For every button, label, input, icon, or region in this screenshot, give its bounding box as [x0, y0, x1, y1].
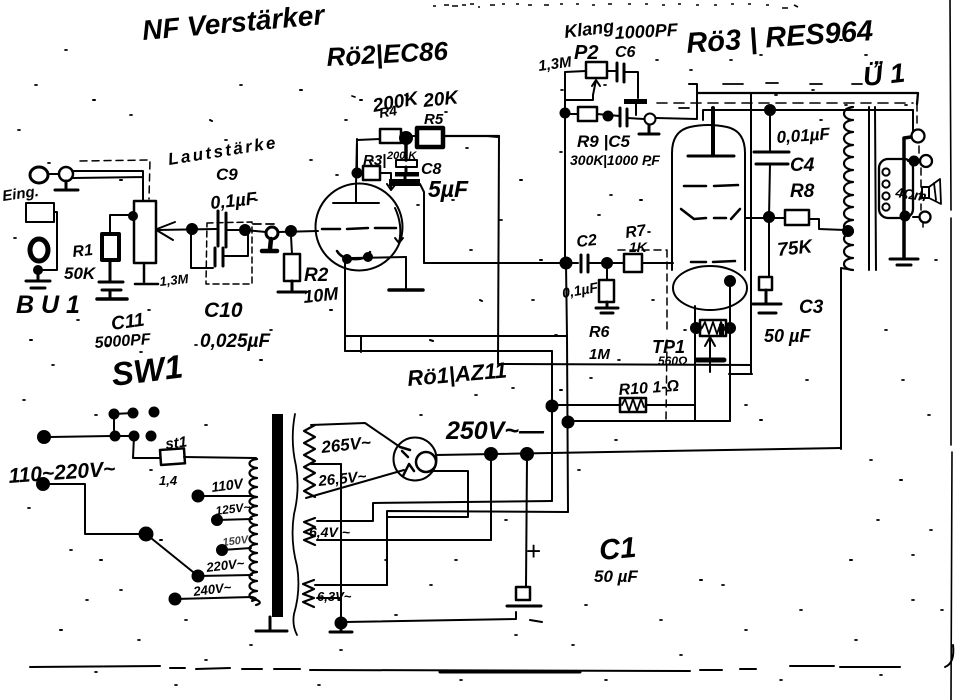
wire switch to fuse — [133, 436, 160, 458]
center tap ground drop — [340, 464, 342, 622]
speaker coil loops — [882, 168, 889, 175]
EC86 heater lead right — [360, 336, 362, 352]
scan noise top edge dashes — [433, 4, 798, 8]
svg-text:+: + — [526, 536, 541, 566]
ground below center tap — [330, 627, 352, 632]
pot wiper arrow — [157, 222, 175, 240]
TP1 right end fill — [719, 324, 724, 335]
selector common node — [140, 528, 153, 541]
transformer core squiggle line — [293, 414, 299, 635]
scan bottom page edge thick part — [440, 671, 580, 674]
ground at jack2 — [55, 181, 78, 190]
node transformer tap — [843, 226, 853, 236]
wire C5 to grid cap circle — [627, 118, 644, 119]
wire C4 down to R8 node — [769, 164, 770, 217]
TP1 wiper bar — [697, 358, 724, 363]
potentiometer P2 — [586, 62, 607, 78]
input jack circle 3 — [30, 239, 48, 261]
wire R8 to transformer tap — [809, 219, 845, 230]
capacitor C3 body box — [759, 277, 772, 290]
wire TP1 left down — [694, 306, 696, 421]
svg-text:50K: 50K — [64, 264, 97, 283]
node at R2 top — [286, 226, 296, 236]
wire heater line lower to transformer — [387, 511, 568, 585]
wire from 250V node down to heater line — [490, 452, 492, 540]
ground rail from transformer to C1 — [345, 612, 542, 622]
capacitor C11 — [99, 260, 123, 298]
R10 zigzag — [622, 399, 644, 411]
node screen on top line — [765, 105, 775, 115]
wire heater drop left — [551, 351, 553, 501]
svg-text:6,3V~: 6,3V~ — [317, 589, 352, 604]
wire speaker top terminal — [908, 160, 920, 162]
ground below C11 — [97, 297, 127, 301]
HV winding bottom tap diagonal — [306, 470, 404, 498]
scan noise speckles — [30, 40, 902, 630]
resistor R9 — [578, 107, 597, 121]
wire cathode to right — [352, 257, 406, 258]
svg-text:0,025µF: 0,025µF — [200, 331, 271, 352]
wire top cap line across to transformer — [703, 110, 913, 120]
input jack circle 2 — [59, 167, 73, 181]
switch SW1 contact dots — [110, 410, 119, 419]
svg-text:50 µF: 50 µF — [594, 567, 638, 586]
svg-text:R4: R4 — [378, 102, 399, 121]
tap node 240V — [170, 594, 181, 605]
ground below R6 — [596, 302, 618, 313]
wire heater line upper to transformer — [317, 501, 552, 521]
svg-text:560Ω: 560Ω — [658, 354, 688, 368]
AZ11 filament circle — [416, 452, 436, 472]
dashed segment above grid cap — [253, 223, 274, 225]
svg-text:0,01µF: 0,01µF — [776, 124, 831, 147]
wire top to P2 — [565, 71, 586, 72]
svg-text:50 µF: 50 µF — [764, 326, 811, 346]
wire 6,3V bottom tap to ground rail — [317, 597, 341, 599]
ground below speaker — [890, 259, 918, 265]
wire 150V tap — [222, 548, 251, 550]
svg-text:|1000 PF: |1000 PF — [603, 152, 660, 168]
wire R7 to RES964 grid — [642, 262, 673, 264]
resistor R7 — [624, 254, 642, 272]
wire pair jack2 to volume pot top — [72, 171, 143, 201]
grid cap connector circle RES964 — [645, 114, 656, 125]
wire bar down to C5 node — [635, 104, 637, 115]
wire bridge cathode line to B+ riser — [729, 373, 752, 375]
wire screen down to C4 — [769, 115, 771, 152]
tube RES964 envelope — [672, 125, 745, 270]
switch SW1 spare dots — [150, 408, 159, 417]
wire grid cap to EC86 grid — [278, 231, 318, 232]
wire C6 right and down — [624, 72, 638, 98]
svg-text:1,4: 1,4 — [159, 473, 178, 488]
svg-text:1M: 1M — [589, 346, 610, 363]
AZ11 anode marks — [400, 447, 414, 476]
wire R1 top to pot — [110, 215, 133, 234]
node TP1 left — [691, 323, 701, 333]
node between R9 and C5 — [604, 112, 613, 121]
wire wiper to C9 — [157, 229, 216, 230]
wire jack1 to jack2 — [48, 173, 59, 175]
ground below R2 — [278, 281, 306, 292]
wire R10 line — [552, 404, 695, 406]
wire C2 to R7 — [588, 262, 624, 264]
resistor R8 — [785, 210, 809, 225]
EC86 anode — [333, 185, 379, 203]
speaker coil body — [879, 159, 913, 218]
tap node 110V — [193, 491, 204, 502]
svg-text:75K: 75K — [776, 236, 814, 261]
RES964 top electrode dashes — [684, 185, 738, 186]
svg-text:C10: C10 — [204, 299, 243, 322]
capacitor C8 thick bottom plate — [389, 179, 420, 186]
resistor R5 — [417, 128, 443, 147]
wire R6 top — [606, 266, 608, 280]
output transformer Ü1 primary winding — [844, 107, 853, 270]
svg-text:Rö2|EC86: Rö2|EC86 — [326, 36, 449, 72]
dashed vertical at right margin — [917, 104, 923, 227]
wire 6,4V bottom tap line — [317, 539, 491, 541]
top rail to speaker jack — [697, 93, 918, 104]
mains terminal bottom — [37, 478, 49, 490]
capacitor C8 middle plate — [395, 172, 419, 177]
resistor R6 — [599, 280, 614, 302]
wire grid circle up to top rail — [656, 84, 697, 119]
svg-text:1000PF: 1000PF — [614, 20, 679, 43]
C6 junction thick bar — [624, 99, 647, 104]
wire winding top to top line — [846, 107, 853, 109]
output transformer core lines — [869, 107, 876, 270]
capacitor C9 — [218, 211, 226, 247]
svg-text:C1: C1 — [598, 532, 638, 567]
scan bottom page edge line — [30, 666, 900, 671]
speaker icon cone — [929, 179, 941, 204]
fuse st1 body — [160, 448, 185, 465]
capacitor C6 plates — [617, 63, 624, 82]
potentiometer (volume) body — [134, 201, 156, 263]
svg-text:C9: C9 — [216, 165, 238, 184]
RES964 grid2 dashes — [691, 261, 735, 262]
wire speaker bottom terminal — [913, 216, 919, 218]
node 250V a — [485, 448, 497, 460]
wire anode node to R3 — [357, 144, 363, 173]
wire cathode down to ground — [405, 257, 407, 288]
svg-text:R5: R5 — [424, 111, 444, 128]
ground below jack3 — [26, 270, 50, 288]
resistor R4 — [380, 129, 401, 143]
resistor R3 — [363, 166, 380, 180]
transformer primary winding loops — [250, 459, 260, 605]
wire R4 to R5 — [401, 135, 417, 137]
wire 6,3V top tap line — [315, 584, 387, 586]
wire mains bottom to selector — [49, 484, 146, 534]
wire AZ11 filament loop — [387, 471, 468, 517]
wire RES964 grid1 out to R8 node — [745, 217, 785, 219]
scan bottom right corner hook — [945, 645, 953, 667]
svg-text:250V~—: 250V~— — [445, 417, 545, 445]
wire fuse to primary top — [184, 457, 256, 458]
capacitor C10 plates — [215, 248, 223, 266]
wire into C10 — [191, 234, 213, 268]
capacitor C8 top plate box — [396, 160, 417, 167]
node on heater drop at R10 — [547, 401, 558, 412]
wire R2 top — [291, 236, 292, 254]
P2 wiper arrow — [592, 80, 600, 95]
HV center tap wire — [311, 463, 341, 465]
svg-text:P2: P2 — [574, 42, 598, 64]
wire Klang feed vertical — [565, 72, 567, 337]
wire winding bottom to B+ drop — [841, 268, 853, 449]
potentiometer TP1 body — [700, 320, 726, 336]
capacitor C10 dashed selection box — [206, 222, 252, 284]
node between R4 and R5 — [400, 132, 412, 144]
EC86 grid dashes — [322, 228, 396, 229]
svg-text:R1: R1 — [72, 242, 94, 261]
wire R9 left — [565, 113, 578, 115]
grid cap ground stub — [639, 125, 659, 134]
EC86 cathode curve — [337, 251, 370, 259]
svg-text:10M: 10M — [302, 283, 340, 307]
wire 240V tap — [175, 597, 256, 601]
mains terminal top — [38, 431, 50, 443]
ground below core — [256, 617, 287, 631]
scan border right edge — [950, 0, 952, 700]
wire BU1 box down to jack3 — [40, 212, 57, 270]
transformer secondary 6,4V winding zigzag — [304, 518, 315, 545]
wire heater line upper — [345, 335, 567, 337]
svg-text:B U 1: B U 1 — [16, 291, 80, 319]
capacitor C4 plates — [754, 152, 789, 164]
grid cap ground stub — [262, 239, 277, 251]
node on coupling line — [561, 258, 572, 269]
node 250V b — [521, 448, 533, 460]
wire P2 wiper to left rail — [566, 95, 593, 100]
RES964 anode plate bar — [688, 155, 734, 158]
connector box BU1 — [26, 203, 54, 222]
wire anode node to R4 — [357, 139, 380, 140]
tube EC86 envelope — [316, 184, 403, 271]
wire 125V tap — [217, 519, 252, 520]
tap node 220V — [193, 571, 204, 582]
resistor R2 — [284, 254, 300, 281]
capacitor C2 plates — [581, 255, 588, 272]
wire C1 drop — [526, 458, 527, 587]
node speaker top — [910, 157, 919, 166]
svg-text:1,3M: 1,3M — [159, 271, 190, 289]
wire R3 to C8 and down to tube — [380, 173, 395, 190]
resistor R1 — [102, 234, 119, 260]
svg-text:1K: 1K — [629, 239, 648, 255]
node center tap ground — [336, 618, 347, 629]
svg-text:R9 |C5: R9 |C5 — [577, 132, 630, 151]
svg-text:C3: C3 — [799, 297, 824, 318]
capacitor C5 plates — [620, 108, 627, 126]
wire out of C10 — [223, 232, 248, 256]
transformer core black bar — [272, 414, 283, 617]
wire heater drop right — [567, 337, 568, 512]
resistor R10 body — [620, 398, 646, 412]
speaker icon box — [922, 187, 929, 198]
svg-text:C2: C2 — [576, 232, 598, 251]
transformer secondary 6,3V winding zigzag — [303, 580, 314, 607]
svg-text:Ü 1: Ü 1 — [861, 58, 906, 92]
wire 250V rail — [436, 448, 841, 455]
node Klang at R9 — [561, 109, 570, 118]
tube RES964 bottom bulb — [673, 266, 747, 310]
wire heater line lower — [345, 350, 552, 352]
EC86 inner right electrode curve — [395, 208, 403, 243]
svg-text:20K: 20K — [421, 87, 460, 112]
capacitor C3 plates polarized — [753, 290, 781, 313]
capacitor C8 stem — [405, 167, 406, 179]
svg-text:R6: R6 — [589, 324, 610, 341]
tap node 150V — [217, 545, 227, 555]
tube AZ11 envelope — [394, 438, 437, 481]
wire 220V tap — [198, 575, 252, 576]
wire C9 to grid cap — [226, 230, 266, 232]
node after C2 — [602, 258, 612, 268]
svg-text:R8: R8 — [790, 181, 815, 202]
wire C8 down to coupling line — [420, 184, 424, 263]
wire TP1 return line — [568, 420, 730, 422]
speaker terminal circle bottom — [920, 212, 931, 223]
tap node 125V — [212, 515, 222, 525]
speaker jack circle top — [912, 130, 925, 143]
wire TP1 cathode drop — [729, 286, 731, 421]
node before C9 — [187, 224, 197, 234]
RES964 anode top cap lead — [711, 108, 715, 154]
wire R9 to C5 — [597, 114, 620, 116]
wire TP1 bar stem — [709, 363, 711, 372]
pot bottom wire and ground — [135, 263, 158, 284]
shield dashed line above input wires — [80, 160, 150, 199]
input jack circle 1 — [30, 167, 48, 183]
node TP1 right — [725, 323, 735, 333]
wire mains top to switch — [50, 436, 111, 437]
capacitor C1 plus box — [516, 587, 530, 600]
wire node down to C3 — [768, 222, 770, 277]
node junction at jack3 — [34, 266, 42, 274]
wire P2 to C6 — [607, 70, 617, 72]
dash-dot marks above top rail — [679, 83, 862, 108]
ground bar below C1 — [507, 605, 541, 608]
RES964 cathode node — [725, 276, 735, 286]
node after C9 — [240, 225, 250, 235]
node at cathode — [343, 255, 351, 263]
node at pot left — [129, 212, 137, 220]
EC86 heater lead left — [344, 262, 346, 351]
dashed line from R7 top — [618, 250, 667, 420]
node at R8 — [764, 212, 774, 222]
node cathode right — [364, 253, 372, 261]
selector arm to 220V tap — [146, 534, 198, 576]
wire jack stub to main drop — [904, 137, 911, 257]
wire R5 to B+ drop — [443, 136, 499, 137]
wire R4 R5 node down to C8 — [404, 141, 408, 160]
node on heater drop at TP1 return — [563, 417, 574, 428]
TP1 zigzag — [702, 322, 724, 334]
dashed rail below top rail — [657, 102, 913, 104]
wire B+ drop down and right — [498, 136, 751, 365]
svg-text:300K: 300K — [570, 152, 604, 168]
wire speaker jack drop — [912, 110, 914, 131]
wire coupling line to C2 — [424, 262, 578, 264]
grid cap connector circle — [266, 227, 278, 239]
wire 110V tap — [198, 495, 252, 497]
svg-text:R2: R2 — [304, 265, 329, 286]
RES964 grid1 with end hooks — [681, 209, 740, 219]
HV winding top tap — [311, 423, 400, 447]
speaker terminal circle top — [920, 155, 932, 167]
ground below cathode — [389, 288, 423, 292]
switch SW1 frame — [114, 413, 134, 436]
wire anode up to R3 R4 node — [356, 139, 357, 185]
TP1 wiper arrow — [705, 337, 715, 358]
svg-text:C6: C6 — [615, 44, 636, 61]
wire B+ riser to output stage — [750, 93, 752, 374]
svg-text:C4: C4 — [790, 155, 815, 176]
svg-text:5µF: 5µF — [428, 176, 469, 202]
transformer secondary HV winding zigzag — [304, 425, 315, 497]
node at R3 left — [353, 169, 362, 178]
node speaker bottom — [901, 212, 910, 221]
